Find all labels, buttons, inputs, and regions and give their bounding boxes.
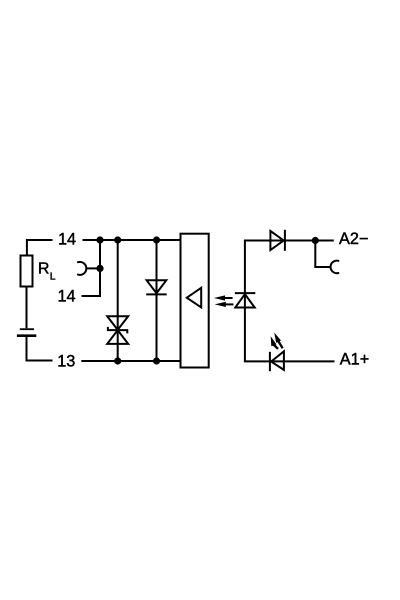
output stage box U1: [181, 234, 209, 368]
wire socket contact to junction: [86, 267, 100, 269]
light arrow lower into detector: [215, 302, 234, 307]
junction node top rail at jumper branch: [96, 236, 103, 243]
svg-text:A1+: A1+: [340, 351, 369, 369]
wire top rail from 14 to output box: [83, 239, 181, 241]
junction node A2: [312, 237, 319, 244]
emission arrow right of indicator LED: [274, 333, 284, 349]
emission arrow left of indicator LED: [271, 336, 279, 350]
svg-text:R: R: [38, 261, 50, 278]
freewheeling diode branch wire: [156, 240, 158, 361]
light arrow upper into detector: [214, 295, 233, 300]
freewheeling diode cathode bar: [146, 293, 167, 295]
battery B1 plate long: [17, 334, 36, 337]
TVS suppressor diode upper triangle: [107, 316, 128, 330]
resistor RL: [21, 256, 33, 287]
TVS suppressor diode gate bar: [108, 327, 127, 334]
wire resistor to battery: [26, 287, 28, 328]
socket contact left: [78, 262, 86, 275]
junction node bottom rail at diode branch: [153, 357, 160, 364]
svg-text:13: 13: [57, 352, 75, 370]
battery B1 plate short: [20, 328, 34, 330]
photodetector triangle in box: [187, 288, 201, 308]
wire from terminal 14 down to resistor RL: [27, 240, 53, 255]
wire junction to socket contact right: [315, 241, 331, 268]
indicator LED cathode bar: [269, 352, 271, 371]
input wire from A2 through top to LED vertical: [245, 241, 335, 362]
svg-text:14: 14: [58, 287, 76, 305]
suppressor branch wire: [117, 240, 119, 361]
svg-text:L: L: [50, 271, 56, 283]
wire bottom rail from 13 to output box: [81, 360, 180, 362]
optocoupler emitter LED cathode bar: [235, 292, 255, 294]
junction node socket contact: [96, 265, 103, 272]
indicator LED triangle: [271, 351, 284, 370]
freewheeling diode triangle: [147, 280, 167, 293]
socket contact right: [331, 261, 339, 274]
jumper branch wire to second terminal 14: [82, 240, 101, 296]
junction node top rail at diode branch: [153, 236, 160, 243]
TVS suppressor diode lower triangle: [107, 330, 128, 344]
junction node bottom rail at suppressor branch: [114, 357, 121, 364]
junction node top rail at suppressor branch: [114, 236, 121, 243]
svg-text:14: 14: [58, 231, 76, 249]
input diode cathode bar: [284, 230, 286, 251]
svg-text:A2−: A2−: [339, 230, 368, 248]
optocoupler emitter LED triangle: [235, 294, 254, 307]
wire battery to terminal 13: [27, 337, 53, 361]
input diode triangle: [270, 231, 283, 250]
